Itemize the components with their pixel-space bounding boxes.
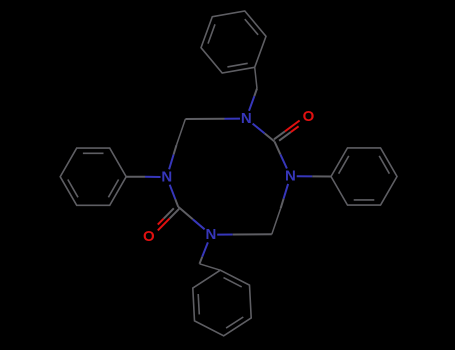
bond N6-C5	[217, 234, 233, 236]
svg-text:O: O	[303, 108, 315, 125]
bond N1-C10	[225, 118, 241, 120]
phenyl ring top	[201, 11, 266, 73]
double bond C2=O2	[279, 132, 291, 141]
bond N8-phenyl left	[145, 176, 161, 178]
svg-text:N: N	[285, 168, 296, 185]
phenyl ring left	[60, 148, 126, 205]
bond N6-C7 (urea)	[193, 219, 205, 229]
bond N8-C9	[169, 155, 174, 170]
bond CH2-phenyl bottom	[200, 264, 221, 270]
bond N3-phenyl right	[297, 175, 313, 177]
svg-text:O: O	[143, 228, 155, 245]
double bond C7=O7	[164, 208, 174, 218]
svg-text:N: N	[241, 110, 252, 127]
bond N6-CH2 benzyl bottom	[202, 242, 208, 256]
bond N1-C2 (urea)	[253, 124, 265, 134]
phenyl ring bottom	[193, 270, 251, 336]
bond N1-CH2 benzyl top	[249, 96, 254, 111]
bond C4-C5 (ring CH2-CH2)	[272, 208, 281, 234]
bond N8-C7	[170, 185, 176, 200]
svg-text:N: N	[205, 226, 216, 243]
bond CH2-phenyl top	[255, 67, 257, 88]
bond N3-C2	[280, 154, 287, 168]
phenyl ring right	[331, 148, 397, 205]
bond N3-C4	[284, 184, 289, 199]
svg-text:N: N	[161, 169, 172, 186]
bond C9-C10 (ring CH2-CH2)	[177, 119, 186, 145]
